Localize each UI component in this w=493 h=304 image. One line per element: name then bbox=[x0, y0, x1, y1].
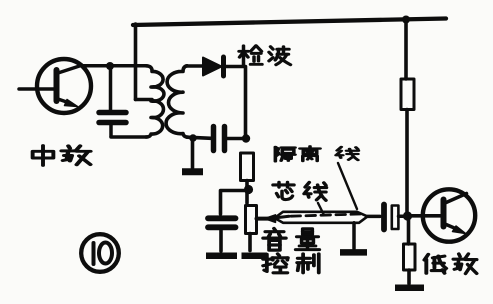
wire: Q1 base lead bbox=[19, 87, 54, 91]
wire: leader from 芯线 to core bbox=[318, 203, 324, 215]
wire: junction to Q2 base bbox=[410, 214, 441, 218]
transformer T1 primary winding bbox=[146, 66, 164, 137]
label: figure number 10 in circle bbox=[81, 234, 119, 272]
wire: core line (dashed) inside cable bbox=[275, 216, 289, 218]
wire: tank bottom wire bbox=[111, 135, 147, 139]
node: AF base junction bbox=[403, 211, 412, 220]
wire: R4 to ground bbox=[407, 270, 411, 284]
label: 控制 (control) bbox=[263, 254, 319, 273]
wire: bias column from rail bbox=[404, 20, 408, 80]
node: junction collector / tuning capacitor bbox=[106, 62, 114, 70]
label: 中放 (IF amplifier) bbox=[33, 146, 91, 166]
ground: bias divider bbox=[395, 285, 424, 292]
resistor R4 (base bias lower) bbox=[404, 244, 416, 270]
ground: potentiometer bbox=[242, 253, 268, 260]
capacitor C4 (coupling to AF stage) bbox=[384, 205, 403, 230]
wire: diode cathode to detector column bbox=[226, 67, 246, 136]
wire: junction to AF bypass capacitor bbox=[221, 191, 248, 215]
capacitor C2 (detector filter) bbox=[214, 127, 243, 151]
wire: wiper arm of R2 bbox=[257, 215, 276, 223]
node: rail junction to bias resistor bbox=[402, 16, 410, 24]
label: 芯线 (core wire) bbox=[273, 182, 326, 200]
wire: R3 to base junction bbox=[405, 110, 409, 213]
transistor Q2 (AF amplifier) bbox=[423, 189, 475, 241]
label: 低放 (AF amplifier) bbox=[424, 254, 476, 274]
potentiometer R2 (volume control) bbox=[246, 206, 257, 234]
transistor Q1 (IF amplifier) bbox=[37, 59, 91, 113]
capacitor C3 (AF bypass) bbox=[208, 218, 236, 251]
wire: secondary top to diode bbox=[186, 64, 203, 68]
node: detector output junction bbox=[242, 134, 250, 142]
wire: leader from 隔离线 to cable bbox=[338, 163, 357, 209]
wire: junction down to R4 bbox=[407, 220, 411, 244]
ground: secondary return bbox=[182, 138, 203, 172]
node: secondary return junction bbox=[189, 134, 197, 142]
wire: potentiometer bottom lead bbox=[248, 234, 252, 251]
transformer T1 secondary winding bbox=[166, 66, 188, 137]
resistor R1 (detector load) bbox=[241, 153, 254, 181]
wire: rail left drop to transformer tap bbox=[136, 24, 153, 100]
wire: Q1 collector to transformer primary bbox=[80, 64, 146, 68]
diode D1 (detector) bbox=[203, 57, 224, 76]
wire: B+ top supply rail bbox=[133, 19, 446, 26]
resistor R3 (base bias upper) bbox=[401, 79, 414, 110]
label: 隔离线 (shield wire) bbox=[275, 146, 358, 161]
ground: cable shield bbox=[340, 223, 367, 253]
wire: secondary bottom wire bbox=[187, 137, 211, 138]
wire: cable core to coupling capacitor bbox=[368, 215, 381, 219]
node: volume control top junction bbox=[244, 181, 253, 204]
capacitor C1 (tuning capacitor of IF transformer) bbox=[99, 66, 126, 137]
shielded cable (screen) outline bbox=[275, 212, 368, 223]
ground: bypass capacitor bbox=[206, 253, 237, 260]
label: 检波 (detector) bbox=[239, 46, 291, 65]
label: 音量 (volume) bbox=[263, 228, 319, 250]
